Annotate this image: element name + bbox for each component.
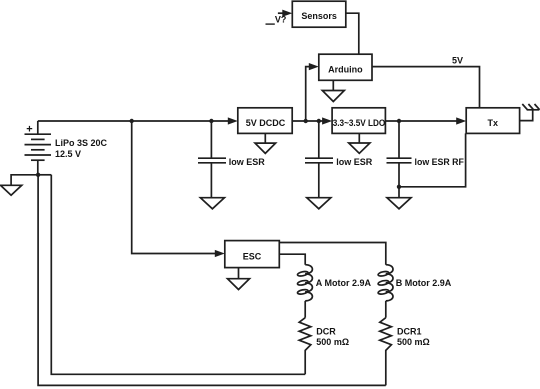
block U6 ESC	[225, 241, 279, 268]
svg-text:ESC: ESC	[243, 252, 262, 262]
wire arrow into U2 LDO	[322, 117, 332, 124]
svg-text:B Motor 2.9A: B Motor 2.9A	[396, 278, 452, 288]
wire inner return bus (motor A)	[51, 175, 305, 374]
wire Tx ground return	[399, 133, 466, 186]
svg-text:+: +	[26, 124, 32, 136]
capacitor C1 low ESR	[198, 121, 226, 198]
svg-text:V?: V?	[275, 15, 287, 25]
svg-text:LiPo 3S 20C: LiPo 3S 20C	[55, 138, 108, 148]
wire arrow into U4 Sensors	[278, 10, 292, 17]
svg-text:Sensors: Sensors	[301, 11, 337, 21]
node bus to C2 branch	[317, 119, 321, 123]
svg-text:Arduino: Arduino	[328, 65, 363, 75]
svg-text:12.5 V: 12.5 V	[55, 149, 81, 159]
ground (C3)	[387, 198, 411, 209]
node LDO out to C3	[397, 119, 401, 123]
svg-text:low ESR: low ESR	[229, 157, 266, 167]
svg-text:5V DCDC: 5V DCDC	[246, 118, 286, 128]
inductor L2 B Motor	[378, 265, 393, 318]
block U3 Arduino	[319, 54, 372, 80]
wire Sensors to Arduino	[346, 13, 359, 54]
capacitor C2 low ESR	[305, 121, 333, 198]
node bus to Arduino riser	[304, 119, 308, 123]
node bus to ESC branch	[130, 119, 134, 123]
node C3 bottom junction	[397, 185, 401, 189]
ground (C2)	[307, 198, 331, 209]
block U4 Sensors	[292, 1, 346, 27]
svg-text:low ESR: low ESR	[336, 157, 373, 167]
battery B1 LiPo 3S 20C	[25, 121, 52, 175]
wire U1 output to U2	[292, 120, 323, 122]
svg-text:DCR: DCR	[316, 326, 336, 336]
inductor L1 A Motor	[297, 265, 312, 318]
ground (U1)	[255, 133, 276, 153]
ground (battery)	[1, 175, 39, 195]
wire arrow into U6 ESC	[215, 250, 225, 257]
wire arrow into U5 Tx	[456, 117, 466, 124]
node bus to C1 branch	[209, 119, 213, 123]
label R2 DCR1 500 mOhm	[397, 326, 430, 347]
block U1 5V DCDC	[238, 108, 292, 134]
wire main 12V bus	[38, 120, 229, 122]
svg-text:A Motor 2.9A: A Motor 2.9A	[316, 278, 372, 288]
wire Arduino 5V riser	[306, 67, 310, 121]
svg-text:low ESR RF: low ESR RF	[415, 157, 465, 167]
wire Arduino to Tx 5V	[372, 67, 480, 108]
node battery minus junction	[36, 173, 40, 177]
wire bus to ESC	[132, 121, 216, 254]
block U2 3.3~3.5V LDO	[332, 108, 385, 134]
wire outer return bus (motor B)	[38, 175, 386, 386]
resistor R1 DCR	[299, 318, 311, 375]
svg-text:5V: 5V	[452, 55, 463, 65]
wire ESC to motor B	[279, 243, 386, 265]
svg-text:Tx: Tx	[488, 118, 499, 128]
label R1 DCR 500 mOhm	[316, 326, 349, 347]
svg-text:500 mΩ: 500 mΩ	[397, 337, 430, 347]
block U5 Tx	[466, 108, 519, 134]
svg-text:3.3~3.5V LDO: 3.3~3.5V LDO	[333, 118, 386, 128]
wire battery junction link	[38, 174, 51, 176]
ground (U6 ESC)	[228, 268, 250, 290]
svg-text:500 mΩ: 500 mΩ	[316, 337, 349, 347]
antenna ANT1	[520, 104, 540, 121]
ground (U2)	[349, 133, 370, 153]
wire ESC to motor A	[279, 254, 305, 265]
wire arrow into U3 Arduino	[309, 63, 319, 70]
ground (U3 Arduino)	[322, 80, 344, 101]
ground (C1)	[200, 198, 224, 209]
wire U2 output to Tx	[385, 120, 457, 122]
label net __V?	[266, 23, 275, 25]
battery value label LiPo 3S 20C / 12.5 V	[55, 138, 108, 159]
capacitor C3 low ESR RF	[387, 121, 412, 198]
resistor R2 DCR1	[380, 318, 392, 386]
wire arrow into U1 5V DCDC	[228, 117, 238, 124]
svg-text:DCR1: DCR1	[397, 326, 422, 336]
